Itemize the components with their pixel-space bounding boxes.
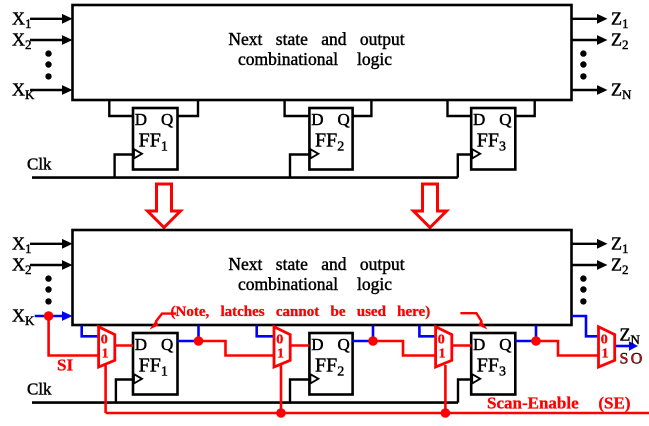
svg-text:0: 0 xyxy=(101,333,108,348)
svg-text:1: 1 xyxy=(602,347,609,362)
svg-text:D: D xyxy=(311,110,323,129)
svg-text:0: 0 xyxy=(438,333,445,348)
svg-text:combinational logic: combinational logic xyxy=(238,49,392,69)
svg-text:D: D xyxy=(311,335,323,354)
svg-text:Q: Q xyxy=(499,335,511,354)
svg-text:Q: Q xyxy=(161,110,173,129)
svg-text:Clk: Clk xyxy=(27,380,52,399)
svg-text:0: 0 xyxy=(276,333,283,348)
svg-text:(Note, latches cannot be used: (Note, latches cannot be used here) xyxy=(171,304,431,320)
svg-text:Q: Q xyxy=(161,335,173,354)
svg-text:D: D xyxy=(135,110,147,129)
svg-text:1: 1 xyxy=(439,347,446,362)
svg-text:SO: SO xyxy=(620,351,645,368)
svg-text:D: D xyxy=(135,335,147,354)
svg-text:Q: Q xyxy=(499,110,511,129)
svg-text:Next state and output: Next state and output xyxy=(228,29,404,49)
svg-text:0: 0 xyxy=(601,333,608,348)
svg-text:Q: Q xyxy=(338,335,350,354)
svg-text:1: 1 xyxy=(277,347,284,362)
svg-text:1: 1 xyxy=(102,347,109,362)
svg-text:Next state and output: Next state and output xyxy=(228,254,404,274)
svg-text:Scan-Enable (SE): Scan-Enable (SE) xyxy=(487,394,631,413)
svg-text:Clk: Clk xyxy=(27,155,52,174)
svg-text:SI: SI xyxy=(57,356,73,375)
svg-text:D: D xyxy=(473,335,485,354)
svg-text:combinational logic: combinational logic xyxy=(238,274,392,294)
svg-text:D: D xyxy=(473,110,485,129)
svg-text:Q: Q xyxy=(338,110,350,129)
